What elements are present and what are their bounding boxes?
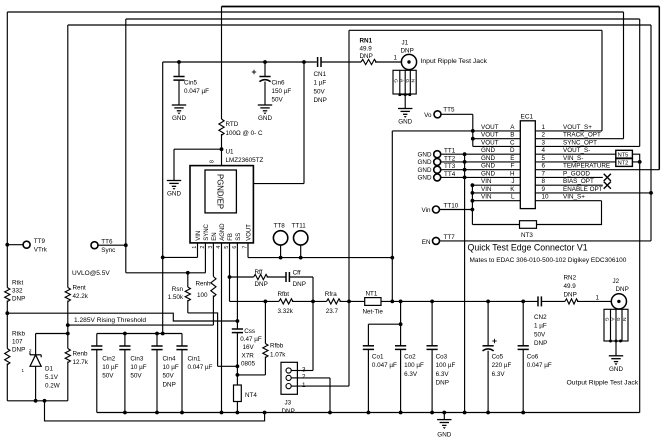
svg-text:0805: 0805 (241, 361, 256, 368)
wire U1 pin 8 stub (221, 149, 223, 165)
svg-text:CN2: CN2 (534, 314, 547, 321)
node ground bus junction (155, 411, 159, 415)
svg-text:Rfbt: Rfbt (278, 291, 290, 298)
svg-text:X7R: X7R (242, 352, 255, 359)
svg-text:VIN: VIN (481, 178, 492, 185)
wire NT1 to output bus (381, 300, 538, 302)
wire TRACK left vertical (6, 12, 8, 288)
test point TT11 (294, 231, 308, 245)
wire row 4 to NT5 (535, 153, 616, 155)
node Css AGND-wire junction (236, 364, 240, 368)
node output bus Co2 (399, 300, 403, 304)
svg-text:NT1: NT1 (366, 290, 378, 297)
wire TT5 to EC1 VOUT rows (441, 113, 473, 115)
capacitor Cin5 (178, 62, 180, 77)
wire Rsn leg to AGND node (218, 365, 238, 367)
wire pin7 VOUT (247, 249, 249, 258)
wire ground right vertical (639, 162, 641, 413)
wire Cin top bus (97, 333, 182, 335)
svg-text:0.047 µF: 0.047 µF (188, 364, 213, 371)
svg-text:TT7: TT7 (444, 234, 456, 241)
ground J2 (609, 355, 623, 357)
wire RN1 to J1 (375, 61, 402, 63)
wire AGND to Rfbb bottom (237, 374, 265, 376)
svg-text:DNP: DNP (564, 292, 577, 299)
svg-text:Input Ripple Test Jack: Input Ripple Test Jack (421, 58, 488, 65)
wire to U1 ground (174, 148, 222, 150)
svg-text:VOUT: VOUT (481, 139, 499, 146)
svg-text:10 µF: 10 µF (163, 364, 179, 371)
wire row C (473, 145, 521, 147)
node ground bus junction (463, 411, 467, 415)
svg-text:J1: J1 (402, 40, 409, 47)
ground Cin5 (172, 104, 186, 106)
svg-text:J2: J2 (613, 278, 620, 285)
svg-text:42.2k: 42.2k (73, 293, 89, 300)
node D1 return riser (43, 399, 47, 403)
svg-text:Renh: Renh (195, 281, 211, 288)
wire D1 bottom row (7, 400, 68, 402)
node VIN vertical to Cin bus (161, 332, 165, 336)
svg-text:U1: U1 (226, 148, 235, 155)
svg-text:100 µF: 100 µF (436, 362, 456, 369)
svg-text:H: H (510, 170, 515, 177)
wire J3 pin2 to ground (300, 377, 330, 379)
wire track divider to SS (7, 313, 237, 321)
capacitor CN2 (537, 296, 539, 306)
svg-text:1: 1 (302, 382, 306, 389)
svg-text:DNP: DNP (163, 381, 176, 388)
wire FB divider (230, 300, 279, 302)
test point TT10 Vin (433, 206, 440, 213)
svg-text:Co5: Co5 (492, 354, 504, 361)
svg-text:DNP: DNP (293, 281, 306, 288)
svg-text:Renb: Renb (73, 350, 89, 357)
wire row B (473, 138, 521, 140)
wire RN2 to J2 (577, 300, 611, 302)
resistor Renb (67, 325, 69, 348)
node J1 ground pins (398, 93, 401, 96)
jack body J1 (393, 70, 416, 94)
wire EN to TT7 (439, 240, 651, 242)
svg-text:50V: 50V (314, 88, 326, 95)
svg-text:Rent: Rent (73, 284, 87, 291)
svg-text:Co2: Co2 (404, 354, 416, 361)
node ground bus junction (521, 411, 525, 415)
ground U1 (167, 180, 181, 182)
svg-text:F: F (511, 163, 515, 170)
wire ground bus (97, 412, 640, 414)
svg-text:Rfbb: Rfbb (270, 343, 284, 350)
capacitor Cin3 (124, 334, 126, 347)
wire row 2 (535, 138, 623, 140)
svg-text:10 µF: 10 µF (130, 364, 146, 371)
svg-text:VIN: VIN (481, 186, 492, 193)
test point TT9 (23, 241, 30, 248)
svg-text:50V: 50V (102, 373, 114, 380)
resistor Rent (67, 25, 69, 288)
svg-text:Cin3: Cin3 (130, 355, 143, 362)
svg-text:GND: GND (167, 191, 181, 198)
svg-text:GND: GND (609, 366, 623, 373)
wire pin1 VIN (197, 249, 199, 258)
svg-text:8: 8 (542, 178, 546, 185)
net-tie NT1 (365, 298, 381, 306)
svg-text:Cin4: Cin4 (163, 355, 176, 362)
wire ground return to bus (45, 401, 265, 421)
svg-text:2: 2 (302, 374, 306, 381)
test point TT8 (273, 231, 287, 245)
svg-text:1.285V Rising Threshold: 1.285V Rising Threshold (74, 317, 146, 324)
node VIN vertical junction (161, 256, 165, 260)
wire VOUT_S+ sense left vertical (348, 30, 350, 386)
node ground bus junction (367, 411, 371, 415)
svg-text:DNP: DNP (401, 47, 414, 54)
node ground bus junction (220, 411, 224, 415)
capacitor Cin2 (96, 334, 98, 347)
node RTD PGND junction (220, 147, 224, 151)
svg-text:0.047 µF: 0.047 µF (372, 362, 397, 369)
node ENABLE row 9 junction (649, 191, 653, 195)
node Rsn junction (186, 271, 190, 275)
wire EN node to Renh (68, 324, 214, 326)
svg-text:Cff: Cff (293, 270, 301, 277)
capacitor Cin4 (156, 334, 158, 347)
wire row 10 VIN_S+ (535, 200, 601, 202)
node return bus junction (263, 411, 267, 415)
resistor Rsn (187, 273, 189, 287)
svg-text:GND: GND (418, 152, 432, 159)
svg-text:PGND/EP: PGND/EP (215, 174, 224, 209)
svg-text:GND: GND (172, 115, 186, 122)
wire CN1 to RN1 (321, 61, 361, 63)
resistor Renh (212, 249, 214, 277)
svg-text:10: 10 (542, 194, 550, 201)
svg-text:B: B (510, 132, 514, 139)
svg-text:Co1: Co1 (372, 354, 384, 361)
resistor Rtkb (6, 313, 8, 348)
capacitor Co5 polarized (487, 301, 489, 345)
svg-text:LMZ23605TZ: LMZ23605TZ (226, 157, 264, 164)
svg-text:TT9: TT9 (34, 238, 46, 245)
net-tie NT5 (616, 150, 633, 158)
capacitor Cin6 polarized (264, 62, 266, 77)
svg-text:BIAS_OPT: BIAS_OPT (563, 178, 594, 185)
svg-text:TRACK_OPT: TRACK_OPT (563, 132, 601, 139)
net-tie NT2 (616, 159, 633, 167)
svg-text:NT2: NT2 (618, 161, 629, 167)
wire TEMPERATURE right vertical (658, 7, 660, 170)
wire J3 pin1 to sense (300, 385, 349, 387)
resistor Rfbt (279, 299, 293, 304)
node Css Rfbb-wire junction (236, 373, 240, 377)
wire VIN/TEMPERATURE top bus (thick) (222, 6, 660, 8)
svg-text:100Ω @ 0- C: 100Ω @ 0- C (226, 130, 263, 137)
ground Cin6 (258, 104, 272, 106)
node ground bus junction (486, 411, 490, 415)
node Rfbb junction (264, 300, 268, 304)
node FB Rff junction (228, 275, 232, 279)
svg-text:TT4: TT4 (444, 171, 456, 178)
svg-text:VIN: VIN (481, 194, 492, 201)
svg-text:D1: D1 (45, 365, 54, 372)
svg-text:TT11: TT11 (292, 222, 307, 229)
capacitor Css (232, 328, 243, 330)
wire row 1 (535, 130, 602, 132)
U1 PGND/EP pad (205, 170, 236, 213)
node ground bus junction (328, 411, 332, 415)
svg-text:Rtkb: Rtkb (12, 331, 25, 338)
svg-text:RTD: RTD (226, 121, 239, 128)
node VOUT riser junction (390, 256, 394, 260)
svg-text:GND: GND (481, 147, 495, 154)
node Co1 jog junction (399, 322, 403, 326)
node ground bus junction (430, 411, 434, 415)
svg-text:G: G (393, 79, 399, 83)
wire VOUT_S+ right vertical to row 1 (601, 30, 603, 131)
svg-text:6.3V: 6.3V (404, 371, 418, 378)
svg-text:VIN: VIN (196, 231, 202, 241)
svg-text:50V: 50V (272, 97, 284, 104)
resistor RN1 (361, 59, 376, 64)
resistor Rff (230, 276, 254, 278)
node row B TT5 (471, 137, 475, 141)
wire VIN vertical (162, 62, 164, 334)
svg-text:23.7: 23.7 (326, 308, 339, 315)
test point TT5 (434, 111, 441, 118)
node output bus Co6 (521, 300, 525, 304)
svg-text:107: 107 (12, 339, 23, 346)
svg-text:49.9: 49.9 (564, 283, 577, 290)
svg-text:0.047 µF: 0.047 µF (184, 88, 209, 95)
svg-text:Cin2: Cin2 (102, 355, 115, 362)
test points TT1-TT4 GND (434, 151, 441, 158)
svg-text:GND: GND (437, 431, 451, 438)
resistor Rtkt (5, 288, 10, 302)
svg-text:C: C (510, 139, 515, 146)
svg-text:G: G (404, 79, 410, 83)
svg-text:5.1V: 5.1V (45, 374, 59, 381)
wire J1 to ground (404, 95, 406, 109)
capacitor Co1 (400, 301, 402, 324)
svg-text:VOUT: VOUT (481, 132, 499, 139)
node VOUT riser bus junction (390, 300, 394, 304)
svg-text:ENABLE OPT: ENABLE OPT (563, 186, 603, 193)
svg-text:AGND: AGND (220, 223, 226, 241)
svg-text:GND: GND (398, 119, 412, 126)
wire U1 right pin tap (303, 62, 305, 184)
svg-text:10 µF: 10 µF (102, 364, 118, 371)
node ground bus junction (399, 411, 403, 415)
node Cin4 top (155, 332, 159, 336)
resistor RTD (221, 7, 223, 120)
svg-text:GND: GND (258, 115, 272, 122)
svg-text:Net-Tie: Net-Tie (363, 309, 384, 316)
svg-text:GND: GND (481, 155, 495, 162)
svg-text:SYNC_OPT: SYNC_OPT (563, 139, 597, 146)
svg-text:4: 4 (542, 147, 546, 154)
connector J1 input ripple test jack (401, 54, 416, 69)
svg-text:1: 1 (595, 295, 599, 302)
svg-text:1 µF: 1 µF (534, 323, 547, 330)
svg-text:TT2: TT2 (444, 155, 456, 162)
svg-text:1: 1 (22, 368, 25, 373)
capacitor Cff (267, 276, 286, 278)
svg-text:DNP: DNP (282, 408, 295, 415)
node J2 ground pins (609, 340, 612, 343)
svg-text:DNP: DNP (616, 286, 629, 293)
wire input bus (163, 61, 317, 63)
svg-text:Cin1: Cin1 (188, 355, 201, 362)
svg-text:Rsn: Rsn (172, 286, 184, 293)
svg-text:J: J (511, 178, 514, 185)
svg-text:TT5: TT5 (443, 106, 455, 113)
capacitor Co3 (431, 301, 433, 345)
svg-text:1.07k: 1.07k (270, 351, 286, 358)
svg-text:1.50k: 1.50k (168, 294, 184, 301)
svg-text:VIN_S-: VIN_S- (563, 155, 583, 162)
svg-text:TT6: TT6 (101, 239, 113, 246)
svg-text:49.9: 49.9 (360, 45, 373, 52)
wire pin2 SYNC (204, 249, 206, 273)
capacitor Co2 (400, 324, 402, 346)
wire TEMPERATURE row 6 to EC1 (535, 169, 659, 171)
resistor RN2 (565, 299, 578, 304)
svg-text:K: K (510, 186, 515, 193)
svg-text:NT5: NT5 (618, 152, 629, 158)
svg-text:TEMPERATURE: TEMPERATURE (563, 163, 610, 170)
svg-text:Mates to EDAC 306-010-500-102: Mates to EDAC 306-010-500-102 Digikey ED… (470, 257, 627, 264)
svg-text:Rfra: Rfra (325, 291, 337, 298)
svg-text:L: L (511, 194, 515, 201)
svg-text:0.2W: 0.2W (45, 382, 60, 389)
ground J1 (398, 108, 412, 110)
svg-text:3: 3 (542, 139, 546, 146)
node SS track junction (236, 319, 240, 323)
svg-text:DNP: DNP (314, 97, 327, 104)
test point TT6 (91, 242, 98, 249)
svg-text:VTrk: VTrk (34, 247, 48, 254)
wire row 8 BIAS_OPT (535, 184, 603, 186)
node VOUT sense bus junction (347, 300, 351, 304)
svg-text:D: D (510, 147, 515, 154)
wire ENABLE right vertical (650, 25, 652, 241)
wire row L (472, 200, 520, 202)
svg-text:0.47 µF: 0.47 µF (240, 336, 262, 343)
svg-text:5: 5 (542, 155, 546, 162)
svg-text:E: E (510, 155, 514, 162)
svg-text:EC1: EC1 (521, 114, 534, 121)
svg-text:Rtkt: Rtkt (12, 279, 23, 286)
wire VOUT_S+ top (349, 29, 602, 31)
svg-text:N: N (621, 318, 627, 322)
svg-text:NT3: NT3 (521, 232, 533, 239)
net-tie NT4 (234, 385, 242, 402)
node NT2 junction (638, 160, 642, 164)
svg-text:TT10: TT10 (444, 203, 459, 210)
svg-text:SS: SS (236, 233, 242, 241)
wire TRACK_OPT top (7, 11, 623, 13)
wire J2 to ground (615, 341, 617, 356)
resistor Rfbb (264, 301, 266, 343)
svg-text:G: G (604, 318, 610, 322)
svg-text:50V: 50V (534, 331, 546, 338)
svg-text:J3: J3 (285, 400, 292, 407)
svg-text:3: 3 (302, 366, 306, 373)
connector J2 output ripple test jack (611, 294, 626, 309)
svg-text:100 µF: 100 µF (404, 362, 424, 369)
node output bus Co5 (486, 300, 490, 304)
wire row 9 ENABLE OPT (535, 192, 651, 194)
svg-text:GND: GND (418, 175, 432, 182)
svg-text:P_GOOD: P_GOOD (563, 170, 590, 177)
svg-text:6: 6 (542, 163, 546, 170)
node ground bus junction (180, 411, 184, 415)
svg-text:VOUT: VOUT (247, 224, 253, 241)
wire to NT3 (472, 224, 519, 226)
svg-text:VOUT_S+: VOUT_S+ (563, 124, 592, 131)
svg-text:Co3: Co3 (436, 354, 448, 361)
node Cff Rfbt junction (311, 300, 315, 304)
ground bus symbol (442, 411, 446, 415)
svg-text:1: 1 (394, 55, 398, 62)
wire row 5 to NT2 (535, 161, 616, 163)
svg-text:UVLO@5.5V: UVLO@5.5V (72, 270, 110, 277)
svg-text:A: A (510, 124, 515, 131)
svg-text:FB: FB (228, 233, 234, 241)
wire GND vertical to bus (464, 154, 466, 412)
wire Cff to Rfbt junction (289, 276, 313, 278)
wire SYNC left vertical (125, 19, 127, 273)
svg-text:Rff: Rff (255, 269, 263, 276)
node D1 junction on EN vertical (66, 332, 70, 336)
svg-text:Quick Test Edge Connector V1: Quick Test Edge Connector V1 (468, 242, 588, 252)
svg-text:Cin5: Cin5 (184, 79, 197, 86)
svg-text:9: 9 (542, 186, 546, 193)
svg-text:2: 2 (29, 348, 32, 353)
svg-text:1: 1 (542, 124, 546, 131)
svg-text:DNP: DNP (255, 281, 268, 288)
svg-text:220 µF: 220 µF (492, 362, 512, 369)
node ground bus junction (236, 411, 240, 415)
svg-text:Css: Css (244, 328, 255, 335)
svg-text:DNP: DNP (360, 53, 373, 60)
svg-text:Co6: Co6 (527, 354, 539, 361)
svg-text:NT4: NT4 (245, 392, 257, 399)
wire row 7 P_GOOD (535, 176, 603, 178)
svg-text:50V: 50V (163, 373, 175, 380)
svg-text:1 µF: 1 µF (314, 80, 327, 87)
svg-text:CN1: CN1 (314, 71, 327, 78)
node ground bus junction (123, 411, 127, 415)
test point TT7 EN (433, 237, 440, 244)
capacitor Cin1 (181, 334, 183, 347)
svg-text:N: N (409, 79, 415, 83)
node row A TT5 (471, 129, 475, 133)
wire VOUT to EC1 row A (392, 130, 520, 132)
svg-text:332: 332 (12, 287, 23, 294)
wire VOUT riser (391, 131, 393, 302)
wire SYNC_OPT right vertical to row 3 (639, 19, 641, 146)
wire pin6 SS (236, 249, 238, 330)
svg-text:2: 2 (542, 132, 546, 139)
connector J3 (281, 362, 297, 394)
wire pin5 FB (229, 249, 231, 302)
svg-text:DNP: DNP (534, 340, 547, 347)
svg-text:VOUT: VOUT (481, 124, 499, 131)
node input bus U1 tap (302, 60, 306, 64)
svg-text:DNP: DNP (436, 380, 449, 387)
